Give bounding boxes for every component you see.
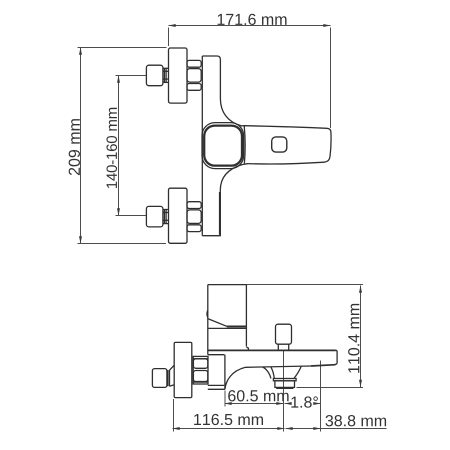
arrow 38.8 left [286, 427, 293, 430]
side lever tip bulge [206, 310, 209, 317]
extension line 171.6 left [168, 28, 170, 47]
arrow 60.5 right [276, 402, 283, 405]
extension line 140-160 bottom [116, 215, 147, 217]
arrow 110.4 top [359, 286, 362, 293]
lever button [272, 137, 287, 152]
spout slab bottom edge thick [311, 365, 336, 366]
arrow 116.5 left [173, 427, 180, 430]
extension line 140-160 top [116, 75, 147, 77]
text 171.6 mm [218, 14, 287, 25]
side wall block bottom lines [208, 384, 225, 386]
arrow 171.6 right [323, 24, 330, 27]
text 38.8 mm [325, 415, 386, 426]
side hex nut [193, 356, 208, 384]
text 60.5 mm [228, 390, 288, 401]
text 140-160 mm [106, 108, 117, 188]
arrow 116.5 right [277, 427, 284, 430]
top wall plate [169, 48, 188, 103]
bottom eccentric valve cap [146, 206, 163, 227]
side lever underside diagonal [208, 319, 227, 327]
dimension 110.4 mm line [360, 286, 362, 388]
aerator bottom line [276, 387, 293, 389]
top hex nut [187, 60, 201, 90]
text 209 mm [69, 119, 80, 175]
aerator bell right curve [294, 366, 301, 378]
arrow 171.6 left [169, 24, 176, 27]
text 116.5 mm [194, 414, 263, 425]
dimension 140-160 mm line [118, 76, 120, 216]
extension line 116.5 left [173, 399, 175, 432]
aerator cup [275, 381, 295, 388]
text 1.8 deg [291, 396, 317, 407]
handle lever (front view) [244, 126, 331, 164]
top eccentric shaft [163, 68, 169, 82]
side wall block right edge [224, 355, 226, 390]
arrow 1.8 left [285, 402, 292, 405]
top eccentric valve cap [146, 65, 163, 86]
lever neck junction line [243, 126, 246, 163]
handle ring outer (front view) [202, 123, 244, 169]
extension line 209 bottom [78, 243, 167, 245]
extension line 60.5 left [224, 391, 226, 407]
bottom eccentric shaft [163, 210, 169, 224]
side body shoulder line [208, 327, 247, 329]
dimension 209 mm line [80, 48, 82, 244]
extension line 110.4 bottom [297, 387, 364, 389]
side wall block top edge [208, 354, 225, 356]
dimension 1.8 deg line left stub [285, 403, 291, 405]
arrow 110.4 bottom [359, 380, 362, 387]
aerator bell left curves [263, 367, 271, 379]
diverter knob (side view) [276, 324, 292, 344]
dimension 1.8 deg line right stub [318, 403, 321, 405]
spout slab top edge [208, 349, 336, 351]
side eccentric washer [168, 365, 174, 386]
faucet body column (front view) [202, 56, 247, 236]
aerator bell rim [273, 379, 296, 381]
spout slab right end [335, 350, 337, 364]
side eccentric cap [152, 369, 167, 388]
handle ring inner thick [204, 126, 242, 166]
arrow 209 top [79, 48, 82, 55]
arrow 38.8 right [313, 427, 320, 430]
spout underside line [246, 366, 312, 367]
arrow 60.5 left [225, 402, 232, 405]
side body column [208, 285, 249, 355]
side lever thick base line [227, 326, 247, 328]
extension line aerator centre [283, 351, 285, 432]
text 110.4 mm [348, 304, 359, 373]
dimension 38.8 mm line with leader [286, 428, 387, 430]
dimension 116.5 mm line [173, 428, 285, 430]
extension line 209 top [78, 47, 167, 49]
dimension 60.5 mm line [225, 403, 284, 405]
bottom wall plate [169, 188, 188, 243]
extension line 110.4 top [247, 284, 364, 286]
extension line spout tip [320, 361, 322, 432]
arrow 1.8 right [313, 402, 320, 405]
spout underside arc [225, 367, 246, 389]
arrow 140-160 top [117, 76, 120, 83]
arrow 209 bottom [79, 236, 82, 243]
side wall plate [174, 342, 192, 397]
bottom hex nut [187, 202, 201, 232]
diverter knob stem [278, 344, 288, 350]
extension line 171.6 right [330, 28, 332, 129]
dimension 171.6 mm line [169, 25, 331, 27]
arrow 140-160 bottom [117, 208, 120, 215]
